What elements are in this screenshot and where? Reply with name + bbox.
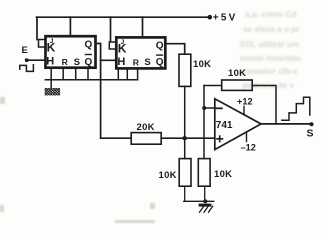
stray scan marks (0, 97, 155, 223)
wire +5V top rail (37, 16, 210, 18)
svg-text:Q: Q (85, 57, 93, 68)
svg-text:20K: 20K (137, 122, 155, 133)
wire feedback left (204, 85, 222, 87)
resistor R4 10K box (179, 159, 191, 187)
svg-text:mente invertido: mente invertido (240, 54, 301, 63)
flip-flop U1 box (46, 36, 96, 67)
pin minus marker (216, 107, 222, 109)
svg-text:533, utilizar um: 533, utilizar um (240, 40, 299, 49)
svg-text:R: R (62, 57, 69, 67)
wire R4 to ground (184, 186, 186, 201)
wire U2 Q to R1 (165, 44, 184, 55)
pin stub U1 b (62, 68, 64, 80)
node +5V dot (208, 15, 213, 20)
resistor R3 20K box (131, 133, 161, 145)
svg-text:–12: –12 (241, 143, 256, 153)
ground G2 bar (199, 204, 212, 207)
resistor R1 10K box (179, 54, 191, 86)
wire minus node to op-amp minus input (204, 107, 215, 109)
wire rail to FF2 J tab (110, 17, 112, 41)
svg-text:10K: 10K (193, 59, 211, 70)
wire tap to U2 H input (101, 59, 117, 61)
wire rail to FF1 top (69, 17, 71, 36)
wire rail to FF2 top (142, 17, 144, 37)
svg-text:10K: 10K (228, 68, 246, 79)
pin +12 supply stub (243, 107, 245, 115)
pin stub U2 a (117, 68, 119, 79)
wire R/S ground bus (45, 79, 137, 81)
svg-text:K: K (47, 41, 56, 55)
svg-text:H: H (117, 56, 125, 68)
wire E to U1 H input (27, 59, 46, 61)
svg-text:+12: +12 (237, 97, 253, 107)
wire bus to ground (50, 80, 52, 89)
waveform staircase (282, 97, 310, 120)
svg-text:H: H (46, 55, 54, 67)
pin stub U1 c (75, 68, 77, 80)
pin J tab U2 (109, 42, 116, 49)
flip-flop U1 labels (46, 38, 164, 68)
wire 20K to op-amp plus input (161, 137, 215, 139)
wire R1 down through plus node to R4 (184, 86, 186, 158)
svg-text:741: 741 (216, 120, 233, 131)
wire minus node vertical (203, 86, 205, 159)
svg-text:S: S (144, 56, 150, 67)
node plus input junction dot (183, 136, 187, 140)
pin plus marker (217, 136, 223, 142)
svg-text:S: S (74, 56, 80, 67)
pin -12 supply stub (246, 133, 248, 142)
pin stub U2 c (137, 68, 139, 79)
svg-text:K: K (118, 41, 127, 55)
pin stub U1 d (87, 68, 89, 80)
svg-text:a.p. como Cd: a.p. como Cd (245, 10, 296, 19)
pin stub U2 b (126, 68, 128, 79)
svg-text:Q: Q (156, 57, 164, 68)
op-amp U3 triangle (215, 99, 261, 150)
pin J tab U1 (39, 40, 46, 48)
ground G2 line (184, 200, 214, 202)
svg-text:10K: 10K (214, 169, 232, 180)
wire feedback right to output (252, 86, 276, 124)
bleed-through ghost text right margin (240, 10, 301, 90)
wire U1 Q to vertical bus (96, 44, 132, 139)
pin stub U1 a (50, 68, 52, 80)
svg-text:contador clb-e: contador clb-e (241, 67, 298, 76)
svg-text:+5V: +5V (213, 13, 238, 24)
wire output S (261, 123, 312, 125)
svg-text:Q: Q (156, 41, 164, 52)
svg-text:S: S (307, 128, 314, 140)
waveform input pulse (20, 65, 34, 72)
wire R5 to ground (204, 186, 206, 201)
svg-text:E: E (22, 45, 28, 56)
resistor R5 10K box (198, 159, 210, 187)
ground G2 hatch (200, 206, 213, 212)
node S dot (310, 122, 314, 126)
svg-text:R: R (133, 58, 140, 68)
resistor R2 10K feedback box (222, 80, 253, 90)
wire rail to FF1 J tab (36, 17, 38, 39)
svg-text:se eleva a o pr: se eleva a o pr (243, 25, 300, 34)
node minus junction dot (202, 106, 206, 110)
svg-text:10K: 10K (159, 170, 177, 181)
flip-flop U2 box (116, 37, 165, 68)
node ground dot (203, 199, 207, 203)
svg-text:Q: Q (85, 40, 93, 51)
node E dot (25, 58, 29, 62)
ground G1 hatched block (45, 88, 61, 96)
